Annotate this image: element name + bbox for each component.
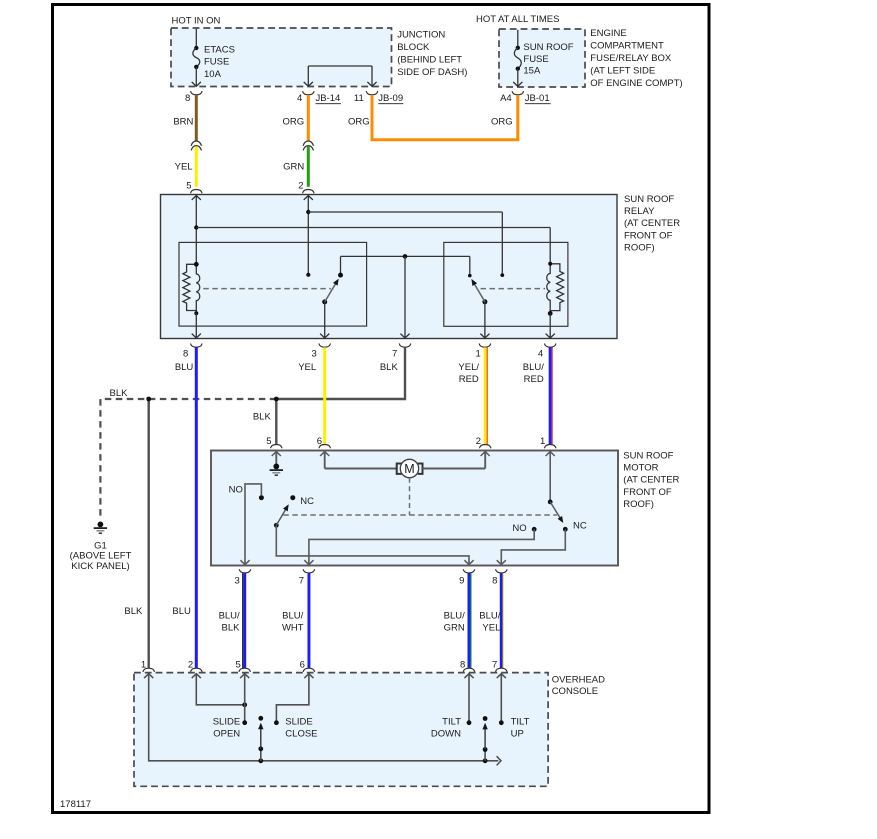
svg-text:BLK: BLK xyxy=(124,606,143,617)
svg-text:GRN: GRN xyxy=(283,162,304,173)
svg-text:TILT: TILT xyxy=(442,716,461,727)
svg-text:6: 6 xyxy=(317,436,322,447)
svg-text:7: 7 xyxy=(299,576,304,587)
svg-text:UP: UP xyxy=(511,728,524,739)
svg-text:RELAY: RELAY xyxy=(624,206,655,217)
svg-text:OF ENGINE COMPT): OF ENGINE COMPT) xyxy=(590,78,682,89)
svg-text:5: 5 xyxy=(236,659,241,670)
svg-text:A4: A4 xyxy=(500,93,512,104)
svg-text:BLK: BLK xyxy=(222,623,241,634)
svg-text:BLK: BLK xyxy=(110,388,129,399)
svg-text:SLIDE: SLIDE xyxy=(285,716,312,727)
svg-text:2: 2 xyxy=(188,659,193,670)
svg-text:1: 1 xyxy=(540,436,545,447)
svg-text:(BEHIND LEFT: (BEHIND LEFT xyxy=(397,54,462,65)
svg-text:(AT CENTER: (AT CENTER xyxy=(623,475,679,486)
svg-text:ENGINE: ENGINE xyxy=(590,28,626,39)
svg-text:ORG: ORG xyxy=(491,117,513,128)
svg-text:1: 1 xyxy=(141,659,146,670)
svg-text:YEL: YEL xyxy=(175,162,193,173)
svg-text:178117: 178117 xyxy=(60,799,91,810)
svg-text:BLOCK: BLOCK xyxy=(397,42,430,53)
svg-text:SUN ROOF: SUN ROOF xyxy=(623,450,673,461)
svg-text:8: 8 xyxy=(183,348,188,359)
svg-text:WHT: WHT xyxy=(282,623,304,634)
svg-text:NO: NO xyxy=(512,523,526,534)
svg-text:FRONT OF: FRONT OF xyxy=(624,230,673,241)
svg-text:YEL: YEL xyxy=(482,623,500,634)
svg-text:4: 4 xyxy=(297,93,302,104)
svg-text:2: 2 xyxy=(298,180,303,191)
svg-text:5: 5 xyxy=(186,180,191,191)
svg-text:SUN ROOF: SUN ROOF xyxy=(624,194,674,205)
svg-text:YEL: YEL xyxy=(298,362,316,373)
svg-text:(AT CENTER: (AT CENTER xyxy=(624,218,680,229)
svg-text:YEL/: YEL/ xyxy=(458,362,479,373)
svg-text:JB-09: JB-09 xyxy=(378,93,403,104)
svg-text:G1: G1 xyxy=(94,540,107,551)
svg-text:4: 4 xyxy=(538,348,543,359)
svg-text:SIDE OF DASH): SIDE OF DASH) xyxy=(397,67,467,78)
svg-text:15A: 15A xyxy=(523,66,541,77)
svg-text:1: 1 xyxy=(476,348,481,359)
svg-text:BLU/: BLU/ xyxy=(219,611,240,622)
svg-text:RED: RED xyxy=(459,374,479,385)
svg-text:ROOF): ROOF) xyxy=(624,243,655,254)
svg-text:FUSE/RELAY BOX: FUSE/RELAY BOX xyxy=(590,53,672,64)
svg-text:CLOSE: CLOSE xyxy=(285,728,317,739)
svg-text:3: 3 xyxy=(235,576,240,587)
svg-text:RED: RED xyxy=(524,374,544,385)
svg-text:BLK: BLK xyxy=(380,362,399,373)
svg-text:7: 7 xyxy=(492,659,497,670)
svg-text:GRN: GRN xyxy=(444,623,465,634)
svg-text:8: 8 xyxy=(460,659,465,670)
svg-text:BRN: BRN xyxy=(173,117,193,128)
svg-text:KICK PANEL): KICK PANEL) xyxy=(71,561,129,572)
svg-text:(AT LEFT SIDE: (AT LEFT SIDE xyxy=(590,66,655,77)
svg-text:5: 5 xyxy=(266,436,271,447)
svg-text:8: 8 xyxy=(185,93,190,104)
svg-text:JUNCTION: JUNCTION xyxy=(397,30,445,41)
svg-text:SUN ROOF: SUN ROOF xyxy=(523,42,573,53)
svg-text:3: 3 xyxy=(312,348,317,359)
svg-text:JB-01: JB-01 xyxy=(525,93,550,104)
svg-text:FRONT OF: FRONT OF xyxy=(623,487,672,498)
svg-text:JB-14: JB-14 xyxy=(316,93,341,104)
svg-text:BLU: BLU xyxy=(175,362,194,373)
svg-text:BLK: BLK xyxy=(253,412,272,423)
svg-text:BLU/: BLU/ xyxy=(479,611,500,622)
svg-text:6: 6 xyxy=(300,659,305,670)
svg-text:ORG: ORG xyxy=(348,117,370,128)
svg-text:ROOF): ROOF) xyxy=(623,499,654,510)
svg-text:ORG: ORG xyxy=(283,117,305,128)
svg-text:DOWN: DOWN xyxy=(431,728,461,739)
svg-text:11: 11 xyxy=(354,93,364,104)
svg-text:BLU/: BLU/ xyxy=(523,362,544,373)
svg-text:MOTOR: MOTOR xyxy=(623,463,658,474)
svg-text:2: 2 xyxy=(476,436,481,447)
svg-text:8: 8 xyxy=(492,576,497,587)
svg-text:BLU/: BLU/ xyxy=(282,611,303,622)
svg-text:FUSE: FUSE xyxy=(523,54,548,65)
svg-text:HOT AT ALL TIMES: HOT AT ALL TIMES xyxy=(476,14,559,25)
svg-text:BLU: BLU xyxy=(172,606,191,617)
svg-text:OVERHEAD: OVERHEAD xyxy=(552,674,605,685)
svg-text:OPEN: OPEN xyxy=(213,728,240,739)
svg-text:ETACS: ETACS xyxy=(204,45,235,56)
svg-text:BLU/: BLU/ xyxy=(444,611,465,622)
svg-text:M: M xyxy=(404,462,414,476)
svg-text:7: 7 xyxy=(392,348,397,359)
svg-text:NC: NC xyxy=(573,520,587,531)
svg-text:COMPARTMENT: COMPARTMENT xyxy=(590,41,664,52)
svg-text:10A: 10A xyxy=(204,69,222,80)
svg-text:HOT IN ON: HOT IN ON xyxy=(172,16,221,27)
svg-text:CONSOLE: CONSOLE xyxy=(552,686,598,697)
svg-text:NC: NC xyxy=(300,496,314,507)
svg-text:SLIDE: SLIDE xyxy=(213,716,240,727)
svg-text:FUSE: FUSE xyxy=(204,57,229,68)
svg-text:TILT: TILT xyxy=(511,716,530,727)
svg-text:9: 9 xyxy=(459,576,464,587)
svg-text:NO: NO xyxy=(229,485,243,496)
